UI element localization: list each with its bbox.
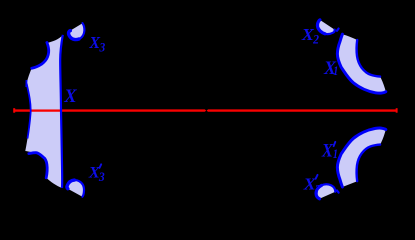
svg-text:2: 2 (312, 33, 319, 47)
svg-text:3: 3 (99, 40, 106, 54)
region X1' crescent fill (337, 128, 385, 187)
real axis (red), left segment (15, 109, 207, 111)
svg-text:X: X (321, 141, 334, 162)
region X1' inner arc stroke (357, 145, 381, 182)
svg-text:3: 3 (98, 169, 105, 184)
strip upper-left notch arc (32, 43, 49, 69)
region X2 blob arc stroke (325, 30, 335, 35)
region X1 outer arc stroke (337, 34, 385, 93)
region X3' blob fill (67, 180, 84, 197)
region X2' blob arc stroke (322, 184, 336, 192)
strip lower-left notch arc (29, 153, 47, 178)
tangency tick bottom (337, 190, 339, 192)
region X3 blob arc stroke (79, 23, 85, 39)
svg-text:1: 1 (333, 147, 338, 161)
real axis (red), left end tick (13, 108, 15, 113)
tangency tick top (337, 29, 339, 31)
label X3' prime (100, 164, 102, 168)
region X (left strip) fill (25, 35, 63, 188)
region X3 blob fill (69, 23, 85, 39)
region X3' blob arc stroke (67, 180, 74, 189)
real axis (red), right segment (207, 109, 397, 111)
region X1 inner arc stroke (357, 40, 381, 77)
label X2' prime (316, 175, 318, 179)
real axis (red), right end tick (396, 108, 398, 113)
region X1' outer arc stroke (337, 128, 385, 187)
region X2' blob fill (316, 184, 335, 199)
svg-text:1: 1 (333, 64, 338, 78)
label X1' prime (334, 142, 336, 146)
red axis over strip (29, 109, 61, 111)
region X2 blob fill (317, 20, 334, 34)
strip right edge stroke (60, 35, 63, 188)
svg-text:X: X (63, 86, 78, 107)
strip left edge stroke (27, 84, 31, 139)
region X1 crescent fill (337, 34, 385, 93)
tangent tick on left edge (25, 80, 27, 87)
